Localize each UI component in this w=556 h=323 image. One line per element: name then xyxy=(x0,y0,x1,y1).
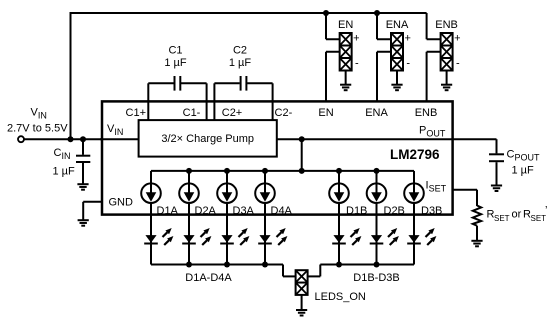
ground Rset xyxy=(471,241,482,247)
svg-text:EN: EN xyxy=(318,107,333,119)
svg-text:1 µF: 1 µF xyxy=(512,165,535,177)
current source D3A xyxy=(217,183,237,203)
svg-text:C1+: C1+ xyxy=(126,107,147,119)
node rail D3A xyxy=(224,168,230,174)
svg-text:1 µF: 1 µF xyxy=(229,57,252,69)
wire bus D1B-D3B xyxy=(308,265,414,277)
svg-text:-: - xyxy=(456,58,460,70)
svg-text:2.7V to 5.5V: 2.7V to 5.5V xyxy=(7,123,68,135)
wire column D3B xyxy=(413,171,415,265)
current source D3B xyxy=(404,183,424,203)
svg-text:+: + xyxy=(353,33,359,45)
svg-text:D1B: D1B xyxy=(346,205,367,217)
LED D1A xyxy=(144,228,173,245)
wire LEDS_ON ground xyxy=(301,295,303,310)
current source D2A xyxy=(179,183,199,203)
svg-text:+: + xyxy=(404,33,410,45)
svg-text:ENB: ENB xyxy=(415,107,438,119)
node rail D4A xyxy=(262,168,268,174)
svg-text:ENB: ENB xyxy=(435,19,458,31)
wire EN to pin xyxy=(326,52,340,102)
node bus D4A xyxy=(262,262,268,268)
LED D1B xyxy=(332,228,361,245)
svg-text:C2-: C2- xyxy=(275,107,293,119)
svg-text:’: ’ xyxy=(545,205,547,217)
wire column D1B xyxy=(338,171,340,265)
svg-text:-: - xyxy=(355,58,359,70)
current source D1A xyxy=(141,183,161,203)
svg-text:C2+: C2+ xyxy=(222,107,243,119)
svg-text:D3B: D3B xyxy=(421,205,442,217)
svg-text:LEDS_ON: LEDS_ON xyxy=(315,291,366,303)
ground Cin xyxy=(77,184,88,190)
current source D1B xyxy=(329,183,349,203)
wire column D4A xyxy=(264,171,266,265)
svg-text:SET: SET xyxy=(494,214,510,223)
switch ENA xyxy=(391,33,403,71)
node Cin tap xyxy=(80,136,86,142)
wire Pout xyxy=(277,138,497,140)
wire ENB to pin xyxy=(427,52,441,102)
node EN rail xyxy=(323,10,329,16)
svg-text:ENA: ENA xyxy=(365,107,388,119)
ground LEDS_ON xyxy=(296,310,307,316)
charge pump block xyxy=(139,120,277,157)
capacitor CIN xyxy=(76,156,90,185)
wire column D2B xyxy=(376,171,378,265)
svg-text:C1: C1 xyxy=(168,45,182,57)
node bus D3A xyxy=(224,262,230,268)
svg-text:D2A: D2A xyxy=(195,205,217,217)
capacitor CPOUT xyxy=(489,154,504,185)
svg-text:C1-: C1- xyxy=(183,107,201,119)
capacitor C2 xyxy=(214,76,272,91)
ground ENA xyxy=(391,85,402,91)
wire column D2A xyxy=(188,171,190,265)
ground EN xyxy=(340,85,351,91)
svg-text:D2B: D2B xyxy=(384,205,405,217)
svg-text:D4A: D4A xyxy=(271,205,293,217)
node bus D2A xyxy=(186,262,192,268)
node rail D1B xyxy=(336,168,342,174)
node bus D2B xyxy=(374,262,380,268)
ground GND pin xyxy=(78,220,89,226)
node bus D1B xyxy=(336,262,342,268)
wire ENB ground xyxy=(446,71,448,85)
ground Cpout xyxy=(491,186,502,192)
node Vin junction xyxy=(68,136,74,142)
current source D2B xyxy=(367,183,387,203)
svg-text:GND: GND xyxy=(109,197,134,209)
node rail D2B xyxy=(374,168,380,174)
switch LEDS_ON xyxy=(296,270,308,295)
resistor RSET xyxy=(473,206,481,226)
wire C2- riser xyxy=(272,83,274,121)
capacitor C1 xyxy=(148,76,206,91)
wire Iset xyxy=(453,190,477,206)
node rail junction xyxy=(299,168,305,174)
svg-text:ENA: ENA xyxy=(386,19,409,31)
LED D4A xyxy=(258,228,287,245)
wire Rset ground xyxy=(476,226,478,241)
svg-text:D1A: D1A xyxy=(157,205,179,217)
wire column D1A xyxy=(150,171,152,265)
LED D3A xyxy=(220,228,249,245)
wire junction drop xyxy=(301,139,303,171)
wire ENA to pin xyxy=(377,52,391,102)
svg-text:1 µF: 1 µF xyxy=(164,57,187,69)
wire current source rail xyxy=(151,170,414,172)
switch ENB xyxy=(441,33,453,71)
label RSET xyxy=(487,205,548,224)
ground ENB xyxy=(441,85,452,91)
wire EN ground xyxy=(345,71,347,85)
wire Vin to charge pump xyxy=(100,138,139,140)
node ENA rail xyxy=(374,10,380,16)
wire ENB from rail xyxy=(427,13,441,39)
wire GND pin xyxy=(83,202,102,220)
svg-text:EN: EN xyxy=(338,19,353,31)
LED D3B xyxy=(407,228,436,245)
wire C1- riser xyxy=(206,83,208,121)
svg-text:D1B-D3B: D1B-D3B xyxy=(353,272,399,284)
wire Cin top xyxy=(82,139,84,155)
svg-text:1 µF: 1 µF xyxy=(53,166,76,178)
svg-text:LM2796: LM2796 xyxy=(390,147,440,162)
LED D2A xyxy=(182,228,211,245)
svg-text:D1A-D4A: D1A-D4A xyxy=(185,272,232,284)
wire C1+ riser xyxy=(147,83,149,121)
wire ENA ground xyxy=(396,71,398,85)
svg-text:-: - xyxy=(406,58,410,70)
wire top rail xyxy=(70,12,427,14)
wire Vin input xyxy=(24,138,139,140)
IC U1 LM2796 outline xyxy=(102,101,453,214)
node Pout junction xyxy=(299,136,305,142)
switch EN xyxy=(340,33,352,71)
node rail D2A xyxy=(186,168,192,174)
wire EN from rail xyxy=(326,13,340,39)
input terminal Vin xyxy=(18,136,24,142)
wire left riser xyxy=(70,13,72,139)
svg-text:D3A: D3A xyxy=(233,205,255,217)
current source D4A xyxy=(255,183,275,203)
wire ENA from rail xyxy=(377,13,391,39)
svg-text:+: + xyxy=(454,33,460,45)
svg-text:C2: C2 xyxy=(233,45,247,57)
wire Cpout riser xyxy=(496,139,498,153)
wire column D3A xyxy=(226,171,228,265)
wire C2+ riser xyxy=(213,83,215,121)
wire bus D1A-D4A xyxy=(151,265,296,277)
LED D2B xyxy=(370,228,399,245)
svg-text:3/2× Charge Pump: 3/2× Charge Pump xyxy=(161,133,254,145)
svg-text:SET: SET xyxy=(531,214,547,223)
svg-text:or: or xyxy=(512,209,522,221)
